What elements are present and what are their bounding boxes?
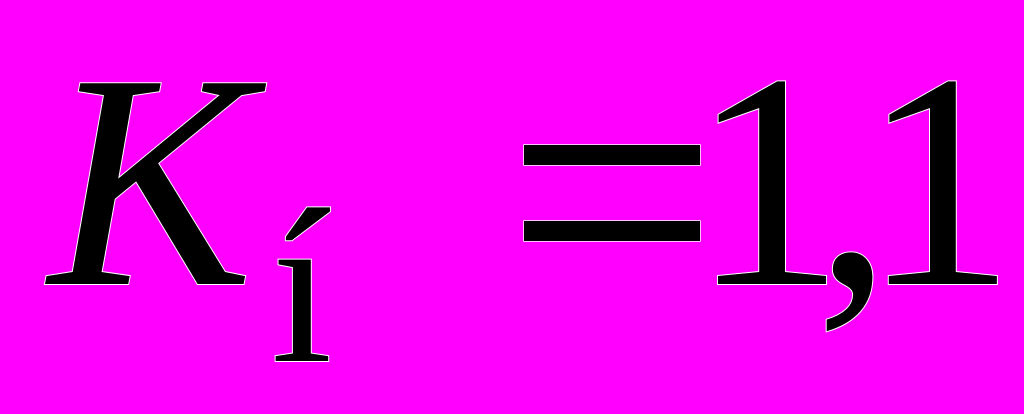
svg-text:í: í <box>271 164 332 409</box>
svg-text:1: 1 <box>862 11 1016 351</box>
equals sign bottom bar <box>524 221 700 241</box>
svg-text:K: K <box>44 12 269 351</box>
equals sign top bar <box>524 145 700 165</box>
